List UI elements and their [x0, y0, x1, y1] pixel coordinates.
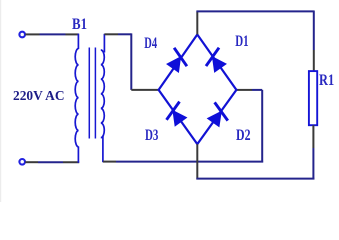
terminal top-left	[19, 32, 25, 38]
transformer B1 primary winding	[75, 34, 78, 163]
wire: bridge top node to top rail	[196, 11, 198, 34]
diode D3	[167, 102, 187, 126]
wire: top rail to R1	[196, 11, 314, 72]
resistor R1	[309, 71, 317, 125]
bottom rail	[196, 178, 314, 180]
svg-text:D1: D1	[235, 33, 248, 50]
diode D2	[208, 102, 228, 126]
wire: top terminal to transformer primary top	[25, 33, 78, 35]
svg-text:220V AC: 220V AC	[13, 89, 65, 104]
wire: secondary top to bridge left node	[104, 33, 158, 90]
svg-text:B1: B1	[72, 16, 87, 33]
svg-text:D2: D2	[236, 127, 251, 144]
wire: bottom terminal to transformer primary bottom	[25, 161, 79, 163]
wire: R1 bottom to bottom rail	[312, 125, 314, 179]
wire: bridge bottom node to bottom rail	[196, 144, 198, 179]
diode D4	[167, 48, 187, 72]
svg-text:R1: R1	[319, 72, 334, 89]
svg-text:D3: D3	[145, 127, 159, 144]
diode D1	[206, 48, 226, 72]
left edge artifact	[0, 0, 2, 202]
terminal bottom-left	[19, 159, 25, 165]
transformer core	[89, 48, 95, 139]
bridge diamond	[159, 35, 237, 145]
transformer B1 secondary winding	[101, 34, 105, 162]
wire: secondary bottom to bridge right node	[103, 90, 263, 163]
svg-text:D4: D4	[144, 35, 157, 52]
